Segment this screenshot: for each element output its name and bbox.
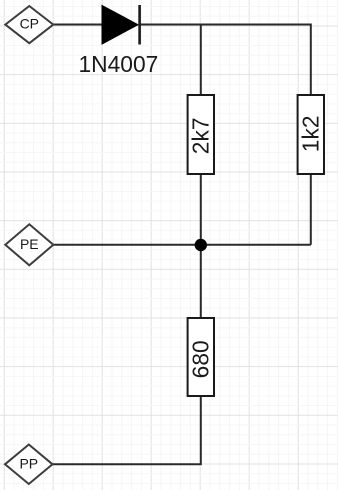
node label PP	[5, 445, 53, 485]
svg-text:CP: CP	[20, 16, 39, 32]
svg-text:PP: PP	[19, 455, 38, 471]
resistor R2 1k2	[297, 95, 324, 174]
wire top net down to R1 (2k7)	[200, 25, 202, 96]
diode D1 1N4007	[102, 5, 140, 45]
svg-text:1N4007: 1N4007	[78, 51, 158, 77]
wire R2 (1k2) bottom to PE net	[310, 174, 312, 245]
svg-text:680: 680	[187, 340, 213, 378]
resistor R1 2k7	[187, 95, 214, 174]
wire diode cathode to top-right corner	[140, 25, 311, 96]
wire R3 (680) bottom to PP	[53, 396, 201, 464]
wire CP to diode anode	[53, 24, 102, 26]
junction node PE	[195, 239, 207, 251]
wire PE horizontal	[53, 244, 311, 246]
node label CP	[5, 6, 53, 43]
svg-text:PE: PE	[20, 236, 39, 252]
resistor R3 680	[187, 318, 214, 396]
svg-text:1k2: 1k2	[297, 115, 323, 152]
svg-text:2k7: 2k7	[187, 117, 213, 154]
wire R1 bottom to node PE	[200, 174, 202, 318]
node label PE	[5, 224, 53, 265]
